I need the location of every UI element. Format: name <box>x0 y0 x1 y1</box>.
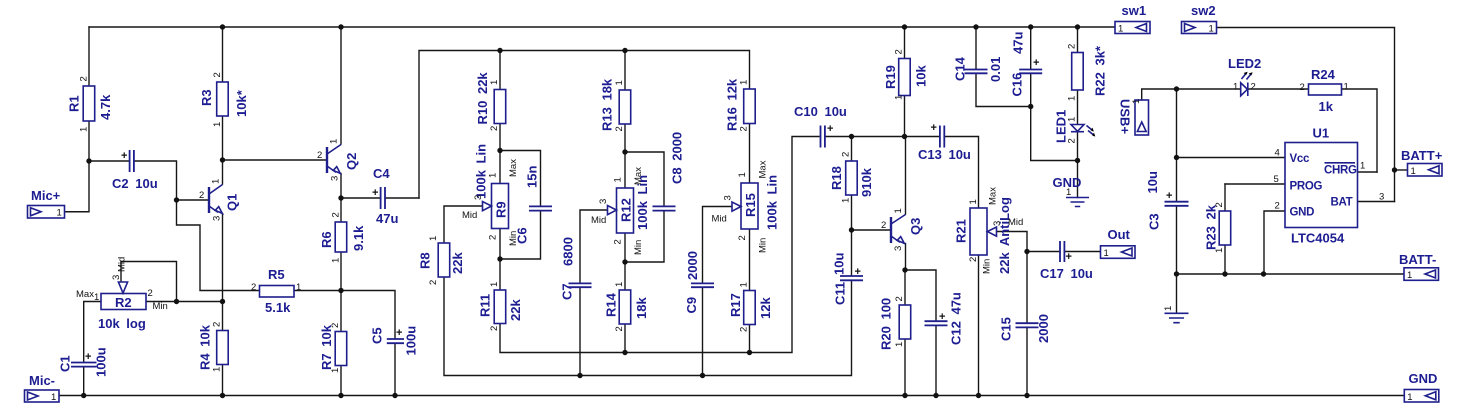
svg-text:2: 2 <box>614 126 625 131</box>
svg-text:10k log: 10k log <box>98 316 146 331</box>
svg-text:PROG: PROG <box>1290 181 1323 193</box>
capacitor C4 <box>372 166 398 226</box>
svg-text:10u: 10u <box>1145 171 1160 193</box>
svg-text:2: 2 <box>739 327 750 332</box>
capacitor C13 <box>918 122 971 162</box>
wire R12 bottom to R14 <box>624 233 626 290</box>
resistor R11 <box>478 282 524 331</box>
wire R14 bottom to bus <box>624 324 626 353</box>
ground GND (LED1) <box>1053 175 1090 207</box>
resistor R5 <box>251 267 301 315</box>
capacitor C8 <box>653 132 685 211</box>
svg-text:R5: R5 <box>268 267 285 282</box>
svg-text:Max: Max <box>633 167 644 185</box>
svg-text:1: 1 <box>329 139 340 144</box>
wire C14 bottom jog <box>976 73 1031 106</box>
connector BATT- <box>1399 252 1439 281</box>
LED LED2 <box>1228 56 1261 96</box>
svg-text:C14: C14 <box>953 56 968 81</box>
wire R22 bottom to LED1 <box>1077 90 1079 125</box>
svg-text:R15: R15 <box>743 193 758 217</box>
wire C4 to EQ rail riser <box>386 197 419 199</box>
svg-text:1: 1 <box>841 198 852 203</box>
wire Vcc node to U1 <box>1177 157 1286 159</box>
svg-text:C15: C15 <box>999 317 1014 341</box>
potentiometer R12 <box>591 167 650 255</box>
svg-text:R19: R19 <box>883 65 898 89</box>
capacitor C16 <box>1010 32 1043 97</box>
svg-text:2: 2 <box>317 150 322 161</box>
wire C9 bottom to wiper bus <box>702 288 704 376</box>
svg-text:1: 1 <box>488 173 499 178</box>
wire Q1 collector to node B <box>222 160 224 184</box>
svg-text:10u: 10u <box>832 253 847 275</box>
svg-text:LED2: LED2 <box>1228 56 1261 71</box>
svg-text:22k: 22k <box>508 299 523 321</box>
wire USB+ to node H <box>1142 89 1177 100</box>
wire Q1 base <box>177 199 209 201</box>
svg-text:12k: 12k <box>758 297 773 319</box>
svg-text:2: 2 <box>489 126 500 131</box>
svg-text:2: 2 <box>1300 82 1305 93</box>
svg-text:R1: R1 <box>67 95 82 112</box>
svg-text:1: 1 <box>894 342 905 347</box>
svg-text:3: 3 <box>1379 192 1384 203</box>
svg-text:2: 2 <box>428 280 439 285</box>
svg-text:3: 3 <box>330 176 341 181</box>
capacitor C17 <box>1040 241 1093 281</box>
svg-text:1: 1 <box>893 208 904 213</box>
svg-text:1: 1 <box>1411 166 1416 177</box>
svg-text:1: 1 <box>330 368 341 373</box>
wire C16 top stub <box>1030 27 1032 69</box>
svg-text:2: 2 <box>489 326 500 331</box>
junction dots: charger section nodes <box>1028 86 1397 276</box>
connector Mic+ <box>28 188 65 219</box>
wire node D to C5 <box>341 291 395 339</box>
wire C5 bottom to rail <box>394 344 396 396</box>
wire C7 bottom to wiper bus <box>579 288 581 376</box>
wire Q2 emitter node C <box>340 174 342 223</box>
svg-text:U1: U1 <box>1313 126 1330 141</box>
wire R15 bottom to R17 <box>749 229 751 291</box>
svg-text:C17 10u: C17 10u <box>1040 266 1093 281</box>
svg-text:100k Lin: 100k Lin <box>474 144 489 199</box>
svg-text:1: 1 <box>296 282 301 293</box>
svg-text:1: 1 <box>613 177 624 182</box>
resistor R3 <box>199 72 249 127</box>
svg-text:R16 12k: R16 12k <box>725 78 740 131</box>
wire C8 parallel loop bottom <box>625 211 664 262</box>
wire R23 top stub <box>1224 184 1226 211</box>
svg-text:2: 2 <box>739 126 750 131</box>
capacitor C3 <box>1145 171 1189 230</box>
svg-text:4: 4 <box>1275 148 1280 159</box>
svg-text:Q3: Q3 <box>908 218 923 235</box>
svg-text:Min: Min <box>982 259 993 274</box>
wire R21 bottom to rail <box>978 255 980 396</box>
wire R1 bottom to node A <box>88 122 90 162</box>
capacitor C14 <box>953 56 1004 82</box>
resistor R13 <box>600 78 631 131</box>
svg-text:1: 1 <box>1344 82 1349 93</box>
wire riser to BATT+ <box>1395 169 1408 171</box>
capacitor C10 <box>794 104 847 148</box>
svg-text:C5: C5 <box>370 327 385 344</box>
svg-text:2: 2 <box>614 326 625 331</box>
svg-text:USB+: USB+ <box>1118 99 1133 134</box>
svg-text:100u: 100u <box>94 347 109 377</box>
svg-text:3: 3 <box>598 199 609 204</box>
junction dots: top +V rail nodes <box>220 24 1080 29</box>
svg-text:18k: 18k <box>634 297 649 319</box>
wire C2 to Q1 base node <box>135 161 177 200</box>
svg-text:+: + <box>855 266 861 278</box>
connector GND (bottom right) <box>1404 371 1439 403</box>
svg-text:2: 2 <box>330 323 341 328</box>
svg-text:3: 3 <box>723 195 734 200</box>
wire bottom rail y=395.5 <box>59 395 1404 397</box>
svg-text:1: 1 <box>51 392 56 403</box>
svg-text:Max: Max <box>758 160 769 178</box>
svg-text:C1: C1 <box>58 355 73 372</box>
junction dots: EQ network nodes <box>497 148 752 378</box>
svg-text:R4 10k: R4 10k <box>198 324 213 370</box>
svg-text:2: 2 <box>841 152 852 157</box>
wire C6 parallel loop top <box>500 151 541 207</box>
svg-text:R14: R14 <box>604 292 619 317</box>
svg-text:Mid: Mid <box>462 210 477 221</box>
svg-text:1: 1 <box>211 179 222 184</box>
svg-text:2: 2 <box>1275 201 1280 212</box>
wire R23 bottom to gnd bus <box>1224 245 1226 274</box>
wire R22 top stub <box>1077 27 1079 53</box>
svg-text:47u: 47u <box>1011 32 1026 54</box>
capacitor C1 <box>58 347 109 377</box>
wire node B to Q2 base <box>223 159 327 161</box>
svg-text:Mid: Mid <box>591 215 606 226</box>
wire R20 bottom to rail <box>904 339 906 396</box>
junction dots: bottom rail nodes <box>81 393 1030 398</box>
svg-text:2: 2 <box>1067 44 1078 49</box>
svg-text:1: 1 <box>212 367 223 372</box>
svg-text:Min: Min <box>758 238 769 253</box>
connector Mic- <box>25 373 60 403</box>
svg-text:3: 3 <box>992 221 1003 226</box>
wire R1 top stub <box>88 27 90 86</box>
wire C12 bottom to rail <box>935 326 937 396</box>
wire C16 bottom to gnd node <box>1031 73 1078 160</box>
wire C13 to R21 top <box>945 137 978 209</box>
transistor Q1 <box>199 179 240 221</box>
resistor R1 <box>67 76 114 132</box>
svg-text:Q2: Q2 <box>344 153 359 170</box>
svg-text:1: 1 <box>894 95 905 100</box>
svg-text:5.1k: 5.1k <box>265 300 291 315</box>
wire U1 BAT stub <box>1358 201 1395 203</box>
svg-text:+: + <box>1166 190 1172 202</box>
svg-text:1: 1 <box>1407 392 1412 403</box>
resistor R8 <box>418 236 466 285</box>
svg-text:15n: 15n <box>525 166 540 188</box>
svg-text:R9: R9 <box>494 201 509 218</box>
svg-text:+: + <box>372 187 378 199</box>
resistor R17 <box>728 282 773 332</box>
resistor R19 <box>883 49 929 100</box>
svg-text:R7 10k: R7 10k <box>319 324 334 370</box>
svg-text:Min: Min <box>633 240 644 255</box>
svg-text:Mic-: Mic- <box>29 373 55 388</box>
svg-text:1: 1 <box>79 127 90 132</box>
svg-text:10k: 10k <box>914 65 929 87</box>
wire R11 bottom bus to C10 riser <box>500 137 819 353</box>
svg-text:1: 1 <box>737 172 748 177</box>
wire sw2 to BATT+ riser <box>1217 28 1395 202</box>
svg-text:1: 1 <box>57 208 62 219</box>
resistor R22 <box>1067 44 1108 101</box>
svg-text:C8 2000: C8 2000 <box>670 132 685 184</box>
svg-text:R23 2k: R23 2k <box>1204 204 1219 250</box>
svg-text:5: 5 <box>1274 174 1279 185</box>
wire R13 top stub <box>624 51 626 91</box>
svg-text:C6: C6 <box>515 227 530 244</box>
svg-text:1: 1 <box>739 80 750 85</box>
resistor R24 <box>1300 67 1349 114</box>
svg-text:C4: C4 <box>373 166 390 181</box>
wire C3 bottom to gnd bus <box>1176 206 1178 274</box>
wire R9 bottom to R11 <box>499 229 501 291</box>
transistor Q3 <box>881 208 923 251</box>
svg-text:1: 1 <box>1214 248 1225 253</box>
svg-text:2: 2 <box>1251 82 1256 93</box>
svg-text:LTC4054: LTC4054 <box>1291 231 1345 246</box>
svg-text:Mic+: Mic+ <box>31 188 61 203</box>
wire R18 bottom to Q3 base node <box>851 195 853 230</box>
wire R6 bottom to node D <box>340 252 342 332</box>
svg-text:0.01: 0.01 <box>988 57 1003 82</box>
wire R20 top stub <box>904 270 906 305</box>
wire Q2 collector to rail <box>340 27 342 144</box>
wire R3 bottom to node B <box>222 116 224 161</box>
svg-text:Mid: Mid <box>1008 217 1023 228</box>
svg-text:R17: R17 <box>728 293 743 317</box>
resistor R7 <box>319 323 347 373</box>
svg-text:100u: 100u <box>404 326 419 356</box>
svg-text:BAT: BAT <box>1331 197 1353 209</box>
svg-text:2: 2 <box>488 235 499 240</box>
svg-text:1: 1 <box>94 292 99 303</box>
LED LED1 <box>1054 110 1096 144</box>
svg-text:2: 2 <box>148 288 153 299</box>
svg-text:2: 2 <box>1067 138 1078 143</box>
svg-text:Mid: Mid <box>712 214 727 225</box>
svg-text:+: + <box>827 123 833 135</box>
wire Q3 emitter to node F <box>905 244 907 271</box>
svg-text:2000: 2000 <box>685 251 700 280</box>
wire C14 top stub <box>975 27 977 69</box>
wire R9 wiper to R8 <box>444 206 483 243</box>
svg-text:22k AntiLog: 22k AntiLog <box>997 197 1012 274</box>
wire R15 wiper to C9 <box>703 207 741 284</box>
svg-text:C12 47u: C12 47u <box>949 292 964 345</box>
svg-text:+: + <box>1033 57 1039 69</box>
svg-text:2000: 2000 <box>1036 314 1051 343</box>
svg-text:2: 2 <box>251 282 256 293</box>
svg-text:Vcc: Vcc <box>1290 153 1310 165</box>
resistor R18 <box>829 152 874 203</box>
capacitor C6 <box>515 166 553 244</box>
svg-text:Out: Out <box>1108 227 1131 242</box>
svg-text:sw1: sw1 <box>1122 3 1147 18</box>
ground (charger section) <box>1163 274 1189 323</box>
junction dots: EQ feed rail nodes <box>497 48 627 53</box>
resistor R10 <box>475 72 506 131</box>
svg-text:R18: R18 <box>829 166 844 190</box>
svg-text:C7: C7 <box>560 283 575 300</box>
wire top +V rail y=27 <box>89 26 1115 28</box>
wire R8 bottom wiper bus to C11 <box>444 277 852 376</box>
svg-text:1: 1 <box>489 282 500 287</box>
wire Q3 base node to C11 <box>851 230 853 276</box>
svg-text:C16: C16 <box>1010 73 1025 97</box>
connector Out <box>1101 227 1136 259</box>
wire LED1 cathode to gnd node <box>1077 132 1079 198</box>
svg-text:+: + <box>939 311 945 323</box>
wire R24 to CHRG <box>1342 89 1378 172</box>
svg-text:BATT+: BATT+ <box>1401 148 1443 163</box>
svg-text:C11: C11 <box>833 282 848 305</box>
IC U1 LTC4054 <box>1274 126 1385 246</box>
svg-text:4.7k: 4.7k <box>98 94 113 120</box>
svg-text:1: 1 <box>1104 248 1109 259</box>
svg-text:1k: 1k <box>1319 99 1334 114</box>
svg-text:2: 2 <box>79 76 90 81</box>
svg-text:1: 1 <box>614 80 625 85</box>
resistor R20 <box>879 296 911 350</box>
wire Mic+ to node A <box>65 161 90 212</box>
wire R13 to R12 <box>624 124 626 189</box>
wire R2 min to emitter <box>146 301 223 303</box>
svg-text:Min: Min <box>153 301 168 312</box>
wire gnd bus to BATT- <box>1177 273 1405 275</box>
svg-text:+: + <box>85 351 91 363</box>
capacitor C5 <box>370 326 419 356</box>
wire R16 to R15 <box>749 124 751 184</box>
wire R4 bottom to rail <box>222 365 224 396</box>
resistor R6 <box>319 212 366 263</box>
wire R23 to U1 PROG <box>1225 183 1285 185</box>
svg-text:22k: 22k <box>450 252 465 274</box>
resistor R16 <box>725 78 756 131</box>
svg-text:1: 1 <box>331 258 342 263</box>
svg-text:1: 1 <box>212 122 223 127</box>
svg-text:Mid: Mid <box>117 257 128 272</box>
wire node F to C12 <box>905 270 936 321</box>
connector sw2 <box>1182 3 1217 35</box>
svg-text:1: 1 <box>739 282 750 287</box>
potentiometer R9 <box>462 144 519 246</box>
svg-text:LED1: LED1 <box>1054 110 1069 143</box>
svg-text:+: + <box>1066 251 1072 263</box>
svg-text:1: 1 <box>1066 187 1071 198</box>
wire base node to R5 staircase <box>177 200 260 291</box>
capacitor C15 <box>999 314 1052 343</box>
svg-text:+: + <box>121 150 127 162</box>
svg-text:1: 1 <box>489 80 500 85</box>
transistor Q2 <box>317 139 359 181</box>
resistor R14 <box>604 282 650 332</box>
svg-text:100k Lin: 100k Lin <box>765 175 780 230</box>
connector sw1 <box>1115 3 1150 35</box>
wire Q3 collector to node E <box>905 137 907 215</box>
wire C1 bottom to rail <box>83 367 85 396</box>
svg-text:BATT-: BATT- <box>1399 252 1436 267</box>
svg-text:GND: GND <box>1290 207 1315 219</box>
resistor R4 <box>198 322 229 372</box>
wire U1 GND stub to gnd bus <box>1264 211 1285 274</box>
capacitor C11 <box>832 253 864 305</box>
svg-text:1: 1 <box>1067 96 1078 101</box>
wire LED2 to R24 <box>1248 88 1309 90</box>
svg-text:10k*: 10k* <box>234 89 249 117</box>
svg-text:2: 2 <box>613 239 624 244</box>
svg-text:1: 1 <box>1209 24 1214 35</box>
potentiometer R15 <box>712 160 780 253</box>
svg-text:47u: 47u <box>376 211 398 226</box>
wire R18 top stub <box>851 137 853 162</box>
svg-text:2: 2 <box>737 235 748 240</box>
wire node G to C15 <box>1026 252 1028 323</box>
svg-text:R10 22k: R10 22k <box>475 72 490 125</box>
wire C10 to node E <box>826 136 905 138</box>
resistor R23 <box>1204 202 1231 253</box>
svg-text:2: 2 <box>212 72 223 77</box>
wire R2 max to C1 <box>84 302 101 363</box>
junction dots: input stage nodes <box>86 157 343 304</box>
wire C6 parallel loop bottom <box>500 211 541 259</box>
wire node C to C4 <box>341 197 380 199</box>
wire R7 bottom to rail <box>340 366 342 396</box>
svg-text:2: 2 <box>331 212 342 217</box>
wire node E to C13 <box>905 136 940 138</box>
svg-text:2: 2 <box>894 296 905 301</box>
wire Q1 emitter down <box>222 214 224 331</box>
wire U1 CHRG stub <box>1358 171 1378 173</box>
svg-text:Q1: Q1 <box>225 194 240 211</box>
svg-text:3: 3 <box>893 246 904 251</box>
wire C17 to Out <box>1065 251 1100 253</box>
svg-text:1: 1 <box>428 236 439 241</box>
svg-text:R24: R24 <box>1311 67 1336 82</box>
capacitor C2 <box>112 150 158 191</box>
svg-text:1: 1 <box>1067 117 1078 122</box>
svg-text:3: 3 <box>212 216 223 221</box>
svg-text:1: 1 <box>1233 82 1238 93</box>
wire node H to LED2 <box>1177 88 1241 90</box>
svg-text:C9: C9 <box>684 297 699 314</box>
svg-text:C13 10u: C13 10u <box>918 147 971 162</box>
capacitor C7 <box>560 237 592 300</box>
wire Q3 base <box>852 229 892 231</box>
svg-text:1: 1 <box>1118 24 1123 35</box>
svg-text:1: 1 <box>1360 161 1365 172</box>
svg-text:R11: R11 <box>478 294 493 317</box>
wire C15 bottom to rail <box>1026 328 1028 396</box>
wire R19 bottom to node E <box>904 96 906 137</box>
svg-text:1: 1 <box>614 282 625 287</box>
svg-text:R2: R2 <box>115 295 132 310</box>
capacitor C9 <box>684 251 714 313</box>
